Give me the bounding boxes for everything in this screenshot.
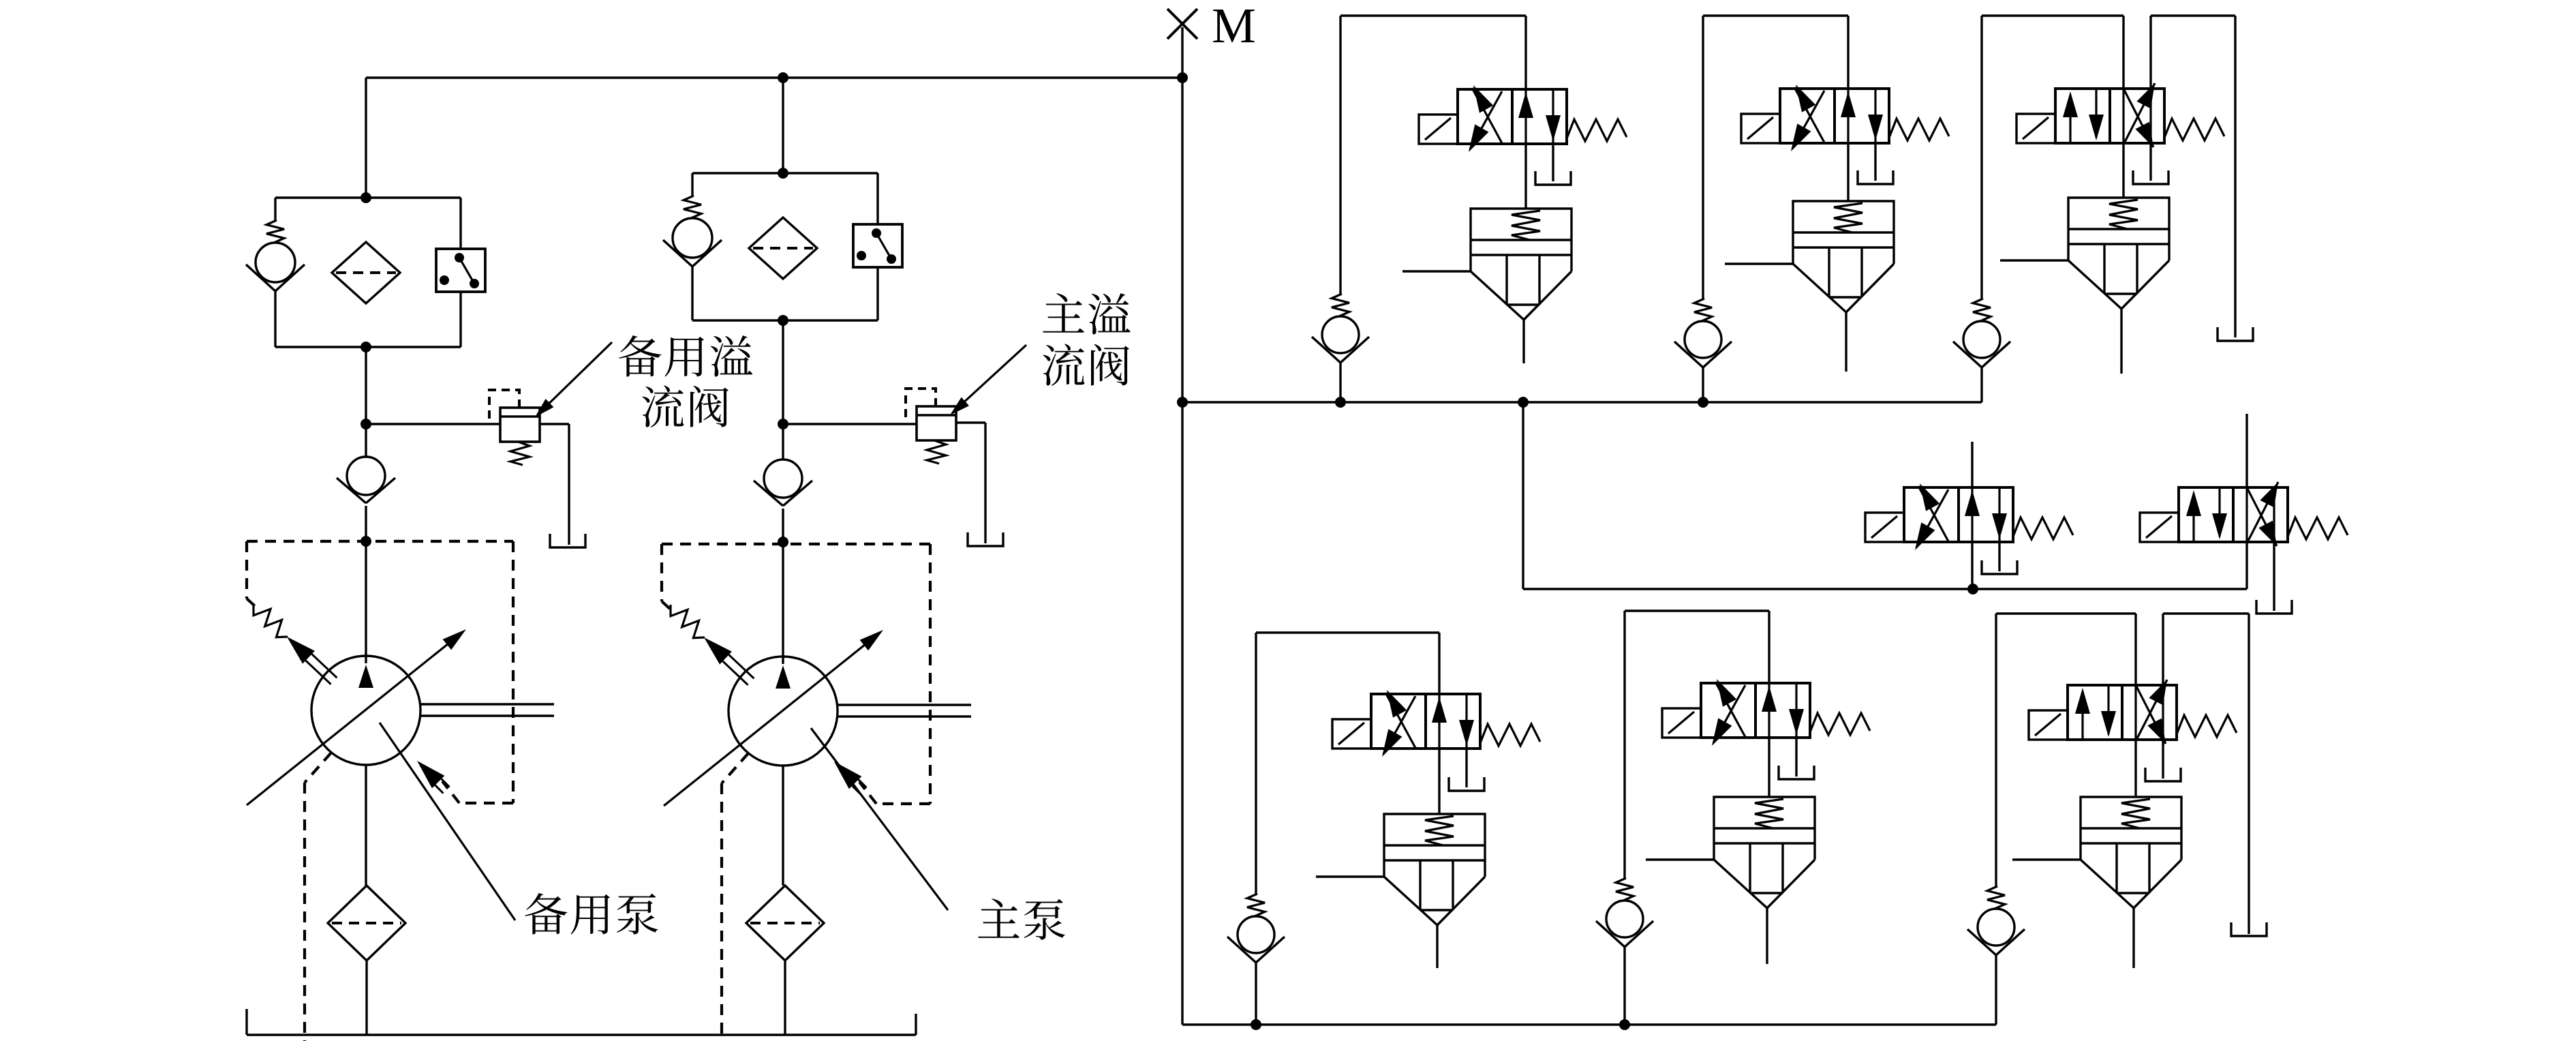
- wire: B3 valve drain: [2162, 740, 2164, 779]
- label leader line to main pump: [811, 728, 948, 910]
- svg-text:M: M: [1212, 0, 1256, 53]
- suction filter of backup pump: [328, 886, 405, 961]
- wire: left return riser to bottom bus: [1181, 402, 1183, 1025]
- directional valve B1: [1332, 690, 1540, 757]
- wire: A3 valve to reducing valve: [2122, 143, 2124, 198]
- tank at B3 valve drain: [2145, 768, 2181, 781]
- pressure filter of backup pump circuit: [332, 242, 400, 303]
- wire: B1 valve drain: [1465, 749, 1467, 787]
- pressure reducing valve B1: [1316, 814, 1485, 968]
- directional valve M2: [2140, 482, 2348, 546]
- variable displacement pump 备用泵 (backup pump): [247, 629, 466, 805]
- pump drive shaft of 主泵 (main pump): [838, 705, 971, 716]
- label leader line to main relief valve: [950, 345, 1026, 415]
- pressure filter of main pump circuit: [749, 217, 817, 279]
- wire: A3 valve drain: [2149, 143, 2151, 181]
- label 备用泵: [525, 893, 658, 935]
- wire: A1 supply loop over valve: [1340, 16, 1526, 89]
- tank at M1 drain: [1982, 560, 2017, 574]
- wire: backup pump circuit filter block rails: [275, 198, 461, 352]
- wire: M2 output to feed bus: [2245, 542, 2248, 589]
- case drain dashed line of 主泵 (main pump): [722, 753, 748, 1041]
- pilot dashed box of 备用泵 (backup pump): [247, 541, 513, 803]
- wire: backup pump circuit riser from top bus: [361, 78, 371, 203]
- node M label: [1212, 0, 1256, 53]
- pressure switch of backup pump circuit: [436, 198, 485, 347]
- directional valve B2: [1662, 679, 1870, 746]
- compensator spring of 主泵 (main pump): [671, 605, 705, 638]
- wire: M1 drain: [1998, 542, 2000, 571]
- wire: backup pump pressure line: [361, 347, 371, 429]
- wire: A2 valve to reducing valve: [1847, 143, 1849, 201]
- suction filter of main pump: [746, 886, 824, 961]
- check valve on valve group A2 branch: [1674, 16, 1732, 402]
- wire: A3 drain loop to tank: [2151, 16, 2235, 337]
- case drain dashed line of 备用泵 (backup pump): [305, 753, 331, 1041]
- wire: A2 supply loop over valve: [1703, 16, 1848, 89]
- wire: B2 supply loop over valve: [1625, 611, 1769, 683]
- wire: B1 valve to reducing valve: [1438, 749, 1440, 814]
- pressure reducing valve A1: [1402, 209, 1571, 363]
- tank at B2 valve drain: [1779, 766, 1814, 779]
- wire: main pump suction/delivery vertical: [782, 542, 784, 886]
- check valve on valve group A3 branch: [1953, 16, 2010, 402]
- wire: B3 drain loop to tank: [2163, 614, 2249, 934]
- wire: backup pump suction to tank line: [365, 961, 367, 1035]
- node M vent cross symbol: [1167, 9, 1197, 78]
- compensator spring of 备用泵 (backup pump): [254, 604, 288, 637]
- compensator control arrow lower of 备用泵 (backup pump): [417, 761, 450, 794]
- check valve on valve group B2 branch: [1596, 611, 1653, 1025]
- tank at A3 drain loop: [2218, 327, 2253, 341]
- compensator control arrow upper of 主泵 (main pump): [704, 637, 754, 685]
- compensator control arrow upper of 备用泵 (backup pump): [287, 637, 337, 684]
- tank at main relief drain: [968, 532, 1003, 546]
- tank at A3 valve drain: [2133, 170, 2168, 184]
- pressure reducing valve A2: [1725, 201, 1894, 372]
- wire: pilot valve M1 top stub: [1971, 442, 1973, 487]
- tank at A2 valve drain: [1858, 170, 1893, 184]
- wire: middle distribution bus: [1182, 397, 1982, 408]
- wire: bottom return bus: [1182, 1019, 1996, 1030]
- wire: B3 valve to reducing valve: [2134, 740, 2136, 797]
- wire: M1 output to feed bus: [1971, 542, 1973, 589]
- pressure reducing valve B3: [2012, 797, 2181, 968]
- label leader line to backup pump: [380, 723, 515, 920]
- tank at B1 valve drain: [1449, 777, 1484, 791]
- label 备用溢流阀: [619, 335, 752, 427]
- wire: lower feed bus to pilot valves: [1523, 402, 2247, 594]
- label leader line to backup relief valve: [535, 342, 612, 417]
- check valve on backup pump line: [337, 424, 395, 547]
- wire: tank line at bottom of pump section: [247, 1009, 916, 1035]
- tank at M2 drain: [2256, 600, 2292, 614]
- wire: B2 valve drain: [1795, 738, 1797, 776]
- pilot dashed box of 主泵 (main pump): [662, 544, 930, 804]
- wire: pilot valve M2 top stub: [2245, 414, 2248, 487]
- wire: backup pump suction/delivery vertical: [365, 541, 367, 886]
- check valve on valve group B1 branch: [1227, 633, 1285, 1025]
- pressure reducing valve B2: [1646, 797, 1815, 964]
- wire: A3 supply loop over valve: [1982, 16, 2123, 89]
- filter bypass valve of backup pump circuit: [246, 198, 305, 347]
- pressure reducing valve A3: [2000, 198, 2169, 374]
- wire: main pump circuit riser from top bus: [778, 78, 788, 179]
- main relief valve 主溢流阀: [783, 389, 956, 464]
- wire: main pump suction to tank line: [784, 961, 786, 1035]
- filter bypass valve of main pump circuit: [663, 173, 722, 320]
- tank at B3 drain loop: [2231, 922, 2267, 936]
- check valve on valve group A1 branch: [1312, 16, 1369, 402]
- wire: M riser down to distribution bus: [1177, 78, 1188, 408]
- directional valve M1: [1865, 483, 2073, 550]
- wire: backup relief drain: [540, 424, 569, 545]
- check valve on main pump line: [754, 424, 812, 547]
- wire: B3 supply loop over valve: [1996, 614, 2136, 685]
- wire: M2 drain: [2273, 542, 2275, 611]
- label 主溢流阀: [1043, 293, 1131, 386]
- wire: main pump pressure line: [778, 320, 788, 429]
- directional valve A2: [1741, 85, 1949, 151]
- backup relief valve 备用溢流阀: [366, 390, 540, 465]
- directional valve A3: [2017, 83, 2224, 147]
- wire: B1 supply loop over valve: [1256, 633, 1439, 694]
- pump drive shaft of 备用泵 (backup pump): [420, 704, 554, 716]
- wire: main pump circuit filter block rails: [692, 173, 878, 326]
- wire: main relief drain: [956, 423, 985, 543]
- wire: A1 valve drain: [1552, 144, 1554, 181]
- pressure switch of main pump circuit: [853, 173, 902, 320]
- variable displacement pump 主泵 (main pump): [664, 630, 883, 806]
- wire: A2 valve drain: [1874, 143, 1876, 181]
- tank at backup relief drain: [550, 534, 585, 547]
- tank at A1 valve drain: [1535, 171, 1571, 185]
- wire: A1 valve to reducing valve: [1524, 144, 1527, 209]
- check valve on valve group B3 branch: [1967, 614, 2025, 1025]
- directional valve A1: [1419, 85, 1627, 152]
- wire: top supply bus: [366, 72, 1188, 83]
- wire: B2 valve to reducing valve: [1768, 738, 1770, 797]
- directional valve B3: [2029, 680, 2237, 744]
- compensator control arrow lower of 主泵 (main pump): [834, 761, 867, 794]
- label 主泵: [978, 899, 1064, 939]
